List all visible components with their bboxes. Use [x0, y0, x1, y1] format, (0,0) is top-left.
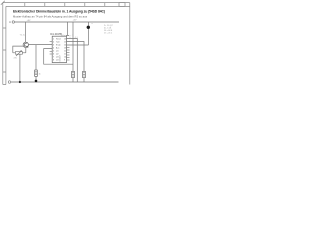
svg-text:3: 3 [53, 44, 54, 46]
svg-text:14: 14 [64, 44, 66, 46]
svg-text:100n: 100n [61, 35, 65, 37]
svg-text:Aus: Aus [56, 46, 59, 49]
resistor R3 [72, 71, 75, 77]
wire vcc drop 2 / R3 column [72, 22, 74, 71]
U1 right pin stubs [67, 48, 70, 61]
wire pin to node drop [67, 44, 89, 46]
terminal X1 [12, 21, 14, 23]
wire pin to x77 [67, 39, 78, 83]
svg-text:Q3: Q3 [56, 56, 59, 58]
svg-text:+5V: +5V [73, 20, 77, 22]
svg-text:Q1: Q1 [56, 50, 59, 52]
U1 labels inside [56, 37, 62, 61]
svg-text:2: 2 [53, 41, 54, 43]
potentiometer P1 [13, 51, 26, 56]
svg-text:Elektronischer Dimmerbaustein: Elektronischer Dimmerbaustein m. 1 Ausga… [13, 10, 105, 14]
svg-text:1: 1 [53, 38, 54, 40]
svg-text:13: 13 [64, 47, 66, 49]
svg-text:10: 10 [64, 56, 66, 58]
U1 left pin stubs [50, 42, 53, 55]
wire output [28, 44, 52, 46]
wire wiper to ground [19, 54, 21, 82]
junction dot [35, 80, 38, 83]
supply rail [15, 21, 119, 23]
wire node drop [88, 22, 90, 45]
svg-text:7: 7 [53, 56, 54, 58]
svg-text:12: 12 [64, 50, 66, 52]
wire pin3 elbow [44, 49, 73, 65]
svg-text:9: 9 [64, 59, 65, 61]
ground rail [11, 81, 119, 83]
wire collector drop [24, 22, 26, 42]
svg-text:Q2: Q2 [56, 53, 59, 55]
IC U1 [52, 36, 66, 62]
svg-text:6: 6 [53, 53, 54, 55]
svg-text:4: 4 [53, 47, 54, 49]
wire base [13, 46, 23, 53]
ground terminal X2 [8, 81, 11, 84]
svg-text:15: 15 [64, 41, 66, 43]
junction dot [19, 81, 21, 83]
svg-text:8: 8 [53, 59, 54, 61]
U1 pin numbers left [53, 38, 54, 61]
svg-text:11: 11 [64, 53, 66, 55]
wire vcc drop 1 [66, 22, 69, 35]
wire emitter [25, 48, 27, 53]
wire branch R2 [35, 45, 37, 70]
svg-text:5: 5 [53, 50, 54, 52]
resistor R4 [83, 71, 86, 77]
svg-text:05 +06 4: 05 +06 4 [104, 32, 113, 34]
svg-text:T1 4c: T1 4c [20, 35, 26, 37]
svg-text:+9V: +9V [27, 20, 31, 22]
svg-text:Enab: Enab [56, 44, 60, 46]
svg-text:16: 16 [64, 38, 66, 40]
transistor Q1 [23, 42, 28, 47]
svg-text:CD4017: CD4017 [60, 55, 62, 62]
resistor R2 [35, 70, 38, 76]
junction dot D1 [87, 26, 90, 29]
U1 pin numbers right [64, 38, 66, 61]
wire pin to R4 [67, 42, 85, 72]
svg-text:Muster-Aufbau an 74 pin 84 als: Muster-Aufbau an 74 pin 84 als Ausgang u… [13, 14, 88, 18]
border frame [3, 3, 130, 85]
svg-text:Reset: Reset [56, 37, 61, 40]
svg-text:Q4: Q4 [56, 59, 59, 61]
svg-text:Takt: Takt [56, 40, 60, 43]
